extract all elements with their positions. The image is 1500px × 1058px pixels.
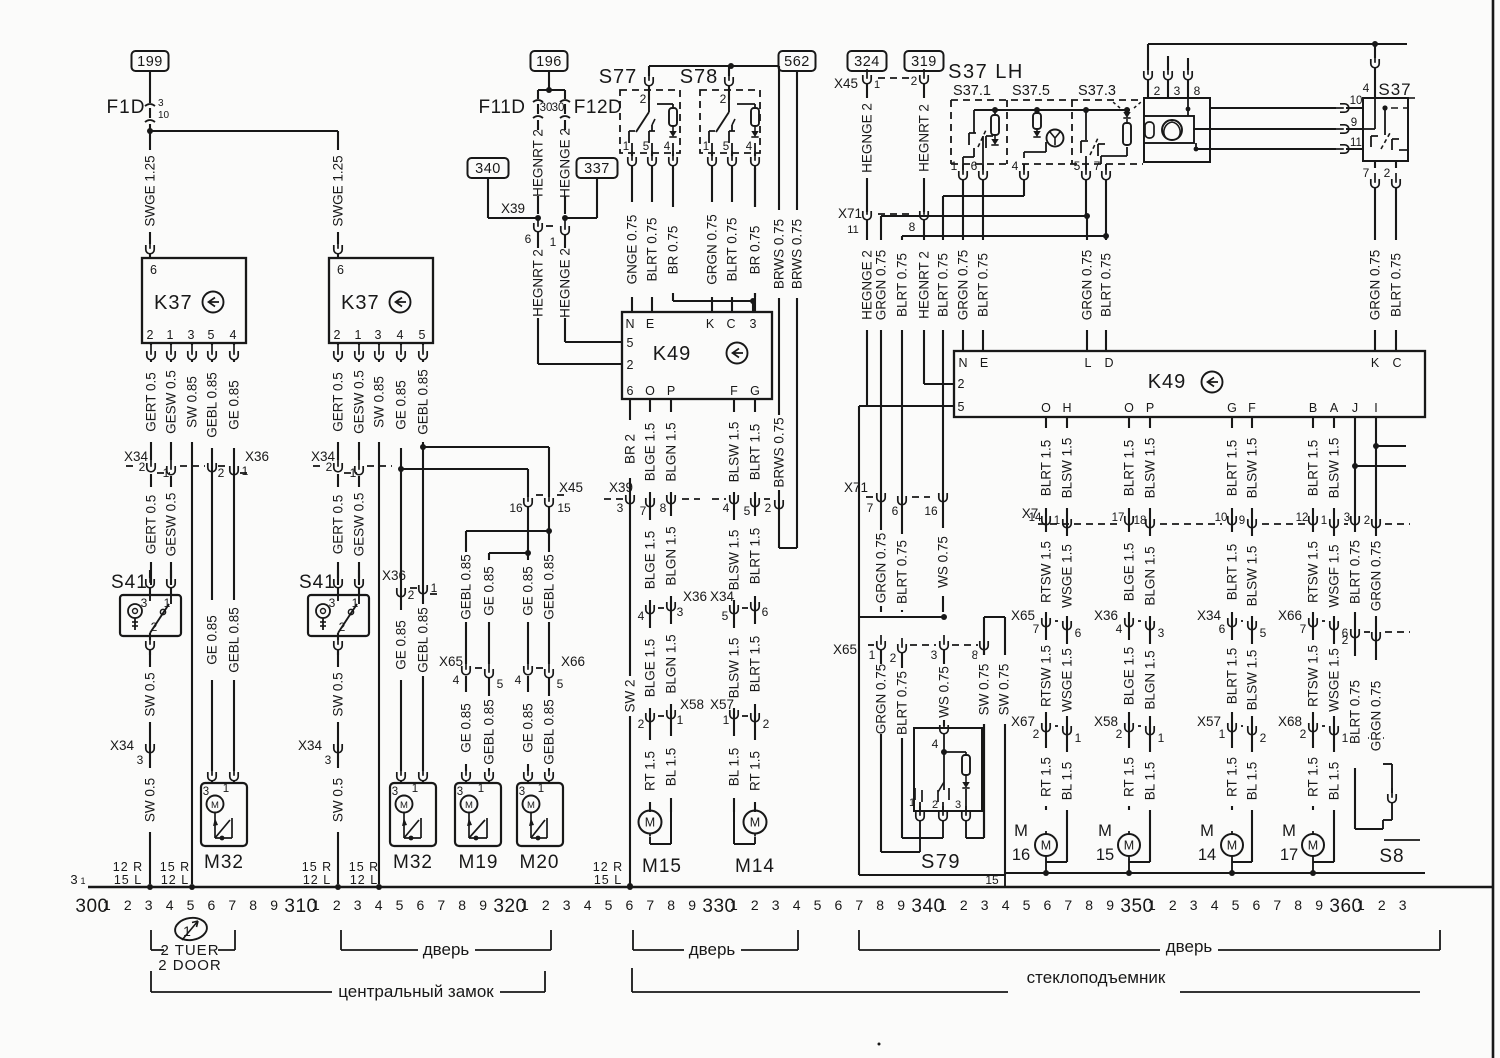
svg-text:15 R: 15 R [302,860,332,874]
svg-text:2: 2 [627,358,634,372]
svg-text:X34: X34 [110,738,135,753]
svg-text:M: M [527,800,535,811]
bus junction dots [147,884,153,890]
svg-text:BR 2: BR 2 [623,434,638,464]
svg-text:2 DOOR: 2 DOOR [158,957,222,974]
S79 internal wires [880,650,882,852]
svg-text:F: F [730,384,738,398]
svg-text:BLSW 1.5: BLSW 1.5 [1245,650,1260,711]
main current track bus [88,886,1493,888]
svg-text:X57: X57 [1197,714,1221,729]
svg-text:X58: X58 [1094,714,1118,729]
svg-text:30: 30 [540,102,553,114]
svg-text:5: 5 [722,609,729,623]
svg-text:N: N [958,356,967,370]
svg-text:BL 1.5: BL 1.5 [1327,762,1342,801]
svg-text:M: M [1227,839,1237,853]
svg-text:1: 1 [103,897,111,913]
connector X58/X57 row [646,707,654,722]
fuse F1D [149,71,151,103]
pins below S37 LH [962,164,964,170]
svg-text:1: 1 [1219,727,1226,741]
svg-text:9: 9 [1106,897,1114,913]
svg-text:SW 0.85: SW 0.85 [185,376,200,428]
svg-text:15 R: 15 R [160,860,190,874]
svg-text:199: 199 [137,54,163,70]
svg-text:RTSW 1.5: RTSW 1.5 [1306,541,1321,603]
svg-text:1: 1 [1158,731,1165,745]
S37.3 contact [1085,110,1087,140]
S79 lower hooks [881,851,920,853]
window motor at 1129 [1118,834,1140,856]
svg-text:3: 3 [981,897,989,913]
svg-text:7: 7 [1273,897,1281,913]
svg-text:5: 5 [187,897,195,913]
svg-text:1: 1 [550,235,557,249]
svg-text:RT 1.5: RT 1.5 [1122,757,1137,797]
svg-text:4: 4 [932,737,939,751]
svg-text:GE 0.85: GE 0.85 [205,615,220,665]
svg-text:9: 9 [897,897,905,913]
svg-text:P: P [1146,401,1154,415]
svg-text:BRWS 0.75: BRWS 0.75 [772,417,787,487]
svg-text:3: 3 [354,897,362,913]
svg-text:M: M [1282,822,1296,840]
svg-text:BLGN 1.5: BLGN 1.5 [664,634,679,693]
svg-text:4: 4 [166,897,174,913]
svg-text:K: K [706,317,715,331]
svg-text:2: 2 [1260,731,1267,745]
svg-text:GE 0.85: GE 0.85 [394,380,409,430]
svg-text:6: 6 [1044,897,1052,913]
wires below K49 left [629,399,631,884]
svg-text:B: B [1309,401,1317,415]
svg-text:RTSW 1.5: RTSW 1.5 [1039,645,1054,707]
svg-text:3: 3 [392,786,398,798]
svg-text:BLRT 1.5: BLRT 1.5 [1225,440,1240,497]
svg-text:WSGE 1.5: WSGE 1.5 [1327,648,1342,712]
lifter group wires at 1046 [1045,417,1047,810]
svg-text:1: 1 [163,466,170,480]
wires 340/337 join fuse wires [487,178,489,218]
window motor M14 [744,811,767,834]
svg-text:X65: X65 [439,654,463,669]
svg-text:GRGN 0.75: GRGN 0.75 [874,533,889,604]
svg-text:7: 7 [437,897,445,913]
svg-text:9: 9 [479,897,487,913]
wires to S37 RH pins 10 9 11 [1210,107,1336,109]
svg-text:3: 3 [203,786,209,798]
svg-text:M: M [1308,839,1318,853]
svg-text:2: 2 [1378,897,1386,913]
svg-text:4: 4 [1116,622,1123,636]
svg-text:M: M [400,800,408,811]
svg-text:5: 5 [958,400,965,414]
svg-text:WS 0.75: WS 0.75 [936,536,951,588]
svg-text:3: 3 [1344,512,1350,524]
svg-text:3: 3 [955,799,961,811]
relay K37 right [329,258,433,343]
svg-text:S41: S41 [111,572,148,593]
svg-text:X66: X66 [561,654,585,669]
svg-text:5: 5 [557,677,564,691]
svg-text:BLRT 1.5: BLRT 1.5 [1225,544,1240,601]
svg-text:3: 3 [931,648,938,662]
svg-text:BLGN 1.5: BLGN 1.5 [1143,650,1158,709]
svg-text:GEBL 0.85: GEBL 0.85 [416,369,431,435]
svg-text:BLRT 0.75: BLRT 0.75 [1348,680,1363,744]
svg-text:2: 2 [1342,633,1349,647]
svg-text:BL 1.5: BL 1.5 [1060,762,1075,801]
svg-text:BLGE 1.5: BLGE 1.5 [643,639,658,698]
svg-text:6: 6 [1253,897,1261,913]
svg-text:GE 0.85: GE 0.85 [394,620,409,670]
svg-text:X58: X58 [680,697,704,712]
svg-text:7: 7 [1064,897,1072,913]
svg-text:GERT 0.5: GERT 0.5 [331,372,346,432]
terminal box 199 [132,51,169,71]
svg-text:M: M [1200,822,1214,840]
svg-text:GEBL 0.85: GEBL 0.85 [482,699,497,765]
SW wires [983,617,985,838]
svg-text:BLGE 1.5: BLGE 1.5 [1122,647,1137,706]
svg-text:1: 1 [623,141,629,153]
svg-text:12 R: 12 R [113,860,143,874]
svg-text:BLSW 1.5: BLSW 1.5 [1143,438,1158,499]
svg-text:G: G [750,384,760,398]
svg-text:1: 1 [350,466,357,480]
connector X36/X34 middle row [646,599,654,614]
svg-text:GESW 0.5: GESW 0.5 [164,370,179,434]
svg-text:GERT 0.5: GERT 0.5 [331,495,346,555]
svg-text:7: 7 [855,897,863,913]
svg-text:1: 1 [951,159,958,173]
svg-text:X36: X36 [683,589,707,604]
connector X45 [524,492,532,507]
svg-text:GRGN 0.75: GRGN 0.75 [1369,681,1384,752]
svg-text:18: 18 [1134,515,1147,527]
svg-text:BLSW 1.5: BLSW 1.5 [727,422,742,483]
svg-text:3: 3 [1399,897,1407,913]
svg-text:4: 4 [1211,897,1219,913]
svg-text:3: 3 [137,753,144,767]
bracket central locking [150,971,152,992]
svg-text:HEGNGE 2: HEGNGE 2 [860,103,875,173]
svg-text:1: 1 [312,897,320,913]
svg-text:3: 3 [375,328,382,342]
svg-text:BLRT 1.5: BLRT 1.5 [748,424,763,481]
svg-text:HEGNRT 2: HEGNRT 2 [917,104,932,172]
svg-text:X65: X65 [833,642,857,657]
svg-text:1: 1 [1148,897,1156,913]
svg-text:BLGE 1.5: BLGE 1.5 [643,423,658,482]
svg-text:BLRT 0.75: BLRT 0.75 [936,253,951,317]
svg-text:BLRT 1.5: BLRT 1.5 [748,636,763,693]
svg-text:X39: X39 [501,201,525,216]
svg-text:5: 5 [1023,897,1031,913]
svg-text:1: 1 [1054,515,1060,527]
window lifter switch S79 [858,617,860,875]
svg-text:M: M [1098,822,1112,840]
svg-text:BLRT 0.75: BLRT 0.75 [895,671,910,735]
svg-text:15: 15 [985,873,999,887]
svg-text:GEBL 0.85: GEBL 0.85 [205,372,220,438]
page pointer symbol [174,916,209,942]
wire HEGNRT to K49 pin 2 [923,220,925,384]
svg-text:F: F [1248,401,1256,415]
svg-text:6: 6 [1075,626,1082,640]
svg-text:2: 2 [751,897,759,913]
svg-text:6: 6 [627,384,634,398]
svg-text:319: 319 [911,54,937,70]
svg-text:S79: S79 [921,851,961,873]
svg-text:BLRT 1.5: BLRT 1.5 [748,528,763,585]
key switch S41 left [149,570,151,578]
top feed line [1148,43,1407,45]
svg-text:M: M [1014,822,1028,840]
svg-text:G: G [1227,401,1237,415]
svg-text:6: 6 [762,605,769,619]
wires into K49 left pins 5,2 [565,341,622,343]
svg-text:H: H [1062,401,1071,415]
svg-text:7: 7 [1094,159,1101,173]
S37.1 resistor and diode [994,110,996,115]
svg-text:2: 2 [763,717,770,731]
svg-text:8: 8 [1085,897,1093,913]
svg-text:2: 2 [333,897,341,913]
svg-text:7: 7 [640,504,647,518]
svg-text:M: M [465,800,473,811]
svg-text:BLRT 0.75: BLRT 0.75 [895,253,910,317]
svg-text:4: 4 [1012,159,1019,173]
svg-text:GNGE 0.75: GNGE 0.75 [625,215,640,285]
wires below K37 #2 [337,367,339,460]
svg-text:6: 6 [626,897,634,913]
svg-text:6: 6 [971,159,978,173]
svg-text:WSGE 1.5: WSGE 1.5 [1060,648,1075,712]
svg-text:RT 1.5: RT 1.5 [1039,757,1054,797]
svg-text:S78: S78 [680,66,719,88]
svg-text:5: 5 [497,677,504,691]
svg-text:X34: X34 [1197,608,1222,623]
svg-text:30: 30 [552,102,565,114]
svg-text:BRWS 0.75: BRWS 0.75 [790,219,805,289]
svg-text:BLSW 1.5: BLSW 1.5 [1327,438,1342,499]
svg-text:BLRT 0.75: BLRT 0.75 [645,217,660,281]
svg-text:2: 2 [890,651,897,665]
svg-text:1: 1 [355,328,362,342]
bracket door (middle) [632,930,634,950]
svg-text:324: 324 [854,54,880,70]
svg-text:BLGN 1.5: BLGN 1.5 [664,526,679,585]
svg-text:562: 562 [784,54,810,70]
svg-text:2: 2 [124,897,132,913]
svg-text:5: 5 [814,897,822,913]
svg-text:HEGNGE 2: HEGNGE 2 [558,128,573,198]
svg-text:X57: X57 [710,697,734,712]
svg-text:17: 17 [1280,846,1298,864]
svg-text:O: O [1124,401,1134,415]
svg-text:F12D: F12D [574,97,622,118]
svg-text:196: 196 [536,54,562,70]
svg-text:8: 8 [1294,897,1302,913]
junction to M19 column [546,528,552,534]
svg-text:6: 6 [835,897,843,913]
svg-text:6: 6 [1219,622,1226,636]
svg-text:BLRT 1.5: BLRT 1.5 [1306,440,1321,497]
svg-text:S41: S41 [299,572,336,593]
svg-text:2: 2 [408,588,415,602]
svg-text:5: 5 [643,141,649,153]
svg-text:S37.5: S37.5 [1012,83,1050,99]
svg-text:WS 0.75: WS 0.75 [937,666,952,718]
S37.1 contact [973,110,975,133]
svg-text:8: 8 [909,220,916,234]
terminal box 196 [531,51,568,71]
svg-text:1: 1 [1357,897,1365,913]
svg-text:8: 8 [876,897,884,913]
svg-text:5: 5 [396,897,404,913]
key switch S41 right [337,570,339,578]
svg-text:3: 3 [677,605,684,619]
svg-text:E: E [980,356,988,370]
terminal box 340 [468,158,509,178]
svg-text:GEBL 0.85: GEBL 0.85 [459,554,474,620]
lifter group wires at 1129 [1128,417,1130,810]
svg-text:BLRT 0.75: BLRT 0.75 [725,217,740,281]
S37.3 resistor diode [1123,112,1130,118]
svg-text:16: 16 [1012,846,1030,864]
svg-text:S37.3: S37.3 [1078,83,1116,99]
svg-text:SWGE 1.25: SWGE 1.25 [143,155,158,226]
svg-text:GERT 0.5: GERT 0.5 [144,372,159,432]
svg-text:HEGNRT 2: HEGNRT 2 [531,249,546,317]
svg-text:M19: M19 [459,852,499,873]
svg-text:3: 3 [145,897,153,913]
wire from 196 to fuses F11D F12D [548,71,550,90]
svg-text:5: 5 [419,328,426,342]
svg-text:3: 3 [772,897,780,913]
connector X34 pin 3 (right) [334,738,342,753]
svg-text:5: 5 [627,336,634,350]
door lock actuator M20 [524,766,532,781]
svg-text:S37: S37 [1378,80,1411,99]
svg-text:4: 4 [515,673,522,687]
door lock actuator M32 #1 [208,766,216,781]
svg-text:3: 3 [457,786,463,798]
svg-text:BLSW 1.5: BLSW 1.5 [1245,438,1260,499]
bracket door (left) [340,930,342,950]
svg-text:14: 14 [1029,512,1042,524]
svg-text:BL 1.5: BL 1.5 [1143,762,1158,801]
svg-text:5: 5 [208,328,215,342]
svg-text:BLGE 1.5: BLGE 1.5 [643,531,658,590]
svg-text:7: 7 [1300,622,1307,636]
svg-text:2: 2 [958,377,965,391]
svg-text:2: 2 [542,897,550,913]
svg-text:1: 1 [874,79,880,91]
svg-text:M20: M20 [520,852,560,873]
svg-text:3: 3 [325,753,332,767]
svg-text:F11D: F11D [478,97,525,118]
svg-text:2: 2 [218,466,225,480]
svg-text:SW 0.75: SW 0.75 [997,664,1012,716]
terminal box 337 [577,158,618,178]
svg-text:GRGN 0.75: GRGN 0.75 [874,250,889,321]
door lock actuator M19 [462,766,470,781]
svg-text:M32: M32 [204,852,244,873]
svg-text:RT 1.5: RT 1.5 [1306,757,1321,797]
svg-text:GE 0.85: GE 0.85 [521,703,536,753]
svg-text:BLRT 0.75: BLRT 0.75 [895,540,910,604]
svg-text:8: 8 [1194,84,1201,98]
svg-text:6: 6 [150,263,157,277]
svg-text:X36: X36 [1094,608,1118,623]
svg-text:S37.1: S37.1 [953,83,991,99]
svg-text:F1D: F1D [107,97,146,118]
svg-text:2: 2 [960,897,968,913]
svg-text:6: 6 [208,897,216,913]
svg-text:17: 17 [1112,512,1125,524]
svg-text:GERT 0.5: GERT 0.5 [144,495,159,555]
svg-text:7: 7 [646,897,654,913]
svg-text:3: 3 [563,897,571,913]
svg-text:2: 2 [1300,727,1307,741]
svg-text:BLRT 0.75: BLRT 0.75 [1099,253,1114,317]
svg-text:стеклоподъемник: стеклоподъемник [1027,968,1166,987]
svg-text:3: 3 [1158,626,1165,640]
svg-text:2: 2 [1033,727,1040,741]
svg-text:RT 1.5: RT 1.5 [643,751,658,791]
S79 switch assembly [914,728,982,811]
svg-text:1: 1 [223,783,229,795]
svg-text:дверь: дверь [1166,937,1213,956]
lamp module (right of S37 LH) [1147,44,1149,70]
svg-text:3: 3 [1190,897,1198,913]
svg-text:GEBL 0.85: GEBL 0.85 [542,554,557,620]
top rail from switches to 562 [649,65,779,67]
svg-text:GESW 0.5: GESW 0.5 [352,370,367,434]
svg-text:O: O [645,384,655,398]
svg-text:X68: X68 [1278,714,1302,729]
svg-text:WSGE 1.5: WSGE 1.5 [1060,544,1075,608]
svg-text:GRGN 0.75: GRGN 0.75 [705,214,720,285]
svg-text:HEGNGE 2: HEGNGE 2 [860,250,875,320]
svg-text:L: L [1085,356,1092,370]
svg-text:10: 10 [1215,512,1228,524]
svg-text:8: 8 [249,897,257,913]
svg-text:X34: X34 [710,589,735,604]
svg-text:16: 16 [924,504,938,518]
svg-text:M: M [1124,839,1134,853]
svg-text:3: 3 [158,98,164,109]
svg-text:M: M [1041,839,1051,853]
svg-text:4: 4 [723,501,730,515]
svg-text:SW 0.85: SW 0.85 [372,376,387,428]
svg-text:2: 2 [1364,515,1370,527]
svg-text:BLSW 1.5: BLSW 1.5 [1245,546,1260,607]
svg-text:16: 16 [509,501,523,515]
svg-text:1: 1 [167,328,174,342]
bracket 2 TUER / 2 DOOR [150,930,152,950]
svg-text:3: 3 [617,501,624,515]
svg-text:BRWS 0.75: BRWS 0.75 [772,219,787,289]
svg-text:2: 2 [640,92,647,106]
svg-text:X45: X45 [559,480,583,495]
svg-text:BLRT 1.5: BLRT 1.5 [1225,648,1240,705]
svg-text:BR 0.75: BR 0.75 [748,226,763,275]
svg-text:9: 9 [270,897,278,913]
